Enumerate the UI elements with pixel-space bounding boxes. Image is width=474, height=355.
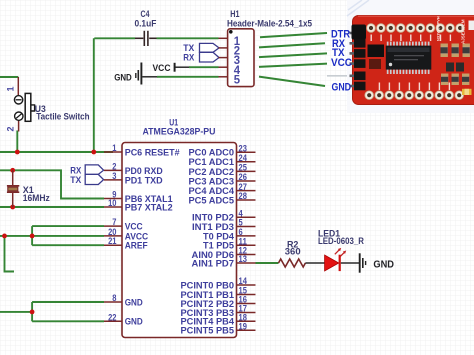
FTDI gold LED [462, 89, 472, 95]
wire: U1 pin 13 to R2 [256, 262, 279, 264]
FTDI silkscreen marks [371, 35, 452, 91]
U1 pin 24 number [239, 153, 247, 163]
svg-text:26: 26 [239, 172, 247, 182]
svg-text:22: 22 [108, 312, 116, 322]
U1 pin 23 (PC0 ADC0) stub [237, 151, 256, 153]
wire: H1 pin 5 to GND symbol [142, 76, 218, 78]
wire: switch pin 1 from left edge [0, 76, 18, 78]
U1 pin 21 number [108, 236, 116, 246]
tactile switch U3 label [35, 104, 90, 122]
U1 pin 1 (PC6 RESET#) stub [104, 151, 122, 153]
svg-text:0.1uF: 0.1uF [134, 18, 156, 29]
U1 pin 15 label [181, 290, 235, 301]
wire: GND feed from left edge [0, 311, 32, 313]
crystal X1 plates [7, 186, 19, 192]
U1 pin 14 label [181, 280, 235, 291]
U1 pin 10 (PB7 XTAL2) stub [104, 206, 122, 208]
wire: H1 to FTDI RX [259, 43, 325, 47]
wire: unconnected CTS (grey) [327, 75, 348, 77]
U1 pin 4 label [192, 213, 234, 224]
svg-text:24: 24 [239, 153, 247, 163]
U1 pin 11 number [239, 236, 247, 246]
U1 pin 11 (T1 PD5) stub [237, 244, 256, 246]
crystal X1 leads [12, 170, 14, 207]
U1 pin 7 (VCC) stub [104, 225, 122, 227]
U1 pin 12 number [239, 246, 247, 256]
tactile switch U3 pin 1 lead [17, 77, 19, 96]
U1 pin 9 number [112, 190, 116, 200]
FTDI jumper block [368, 45, 385, 70]
svg-text:360: 360 [285, 246, 301, 257]
header H1 pin 3 number [234, 55, 240, 67]
net label TX (FTDI) [332, 47, 345, 59]
header H1 pin1 marker dot [229, 30, 233, 34]
svg-text:7: 7 [112, 217, 116, 227]
FTDI board PCB [353, 16, 474, 105]
U1 pin 27 (PC4 ADC4) stub [237, 190, 256, 192]
tactile switch U3 pin number 1 [6, 86, 16, 91]
U1 pin 19 (PCINT5 PB5) stub [237, 329, 256, 331]
U1 pin 13 (AIN1 PD7) stub [237, 262, 256, 264]
svg-text:LED-0603_R: LED-0603_R [318, 236, 364, 247]
header H1 label [227, 9, 312, 28]
U1 pin 3 (PD1 TXD) stub [104, 179, 122, 181]
U1 pin 21 label [125, 241, 148, 252]
wire: H1 to FTDI DTR [260, 33, 327, 37]
LED LED1 cathode bar [339, 255, 341, 271]
U1 pin 27 label [189, 186, 235, 197]
U1 pin 3 label [125, 175, 163, 186]
junction dot 3 [10, 168, 15, 173]
svg-text:1: 1 [6, 86, 16, 91]
U1 pin 14 number [239, 276, 247, 286]
svg-text:GND: GND [125, 297, 143, 308]
wire: XTAL1 net from left edge to U1 pin 9 [0, 170, 104, 198]
header H1 pin 1 number [234, 36, 241, 48]
U1 pin 17 label [181, 308, 235, 319]
svg-text:GND: GND [125, 317, 143, 328]
header H1 pin 2 number [234, 46, 240, 58]
U1 pin 18 number [239, 313, 247, 323]
U1 pin 13 number [239, 254, 247, 264]
svg-text:2: 2 [6, 126, 16, 131]
header H1 box [228, 29, 254, 87]
svg-text:VCC: VCC [331, 57, 352, 69]
U1 pin 28 number [239, 191, 247, 201]
U1 pin 15 (PCINT1 PB1) stub [237, 294, 256, 296]
net label RX (FTDI) [332, 38, 346, 50]
tactile switch U3 pin number 2 [6, 126, 16, 131]
header H1 pin 5 stub [219, 76, 228, 78]
U1 pin 9 label [125, 194, 174, 205]
header H1 pin 4 stub [219, 66, 228, 68]
U1 pin 4 number [239, 208, 243, 218]
svg-text:13: 13 [239, 254, 247, 264]
U1 pin 23 number [239, 143, 247, 153]
resistor R2 [279, 259, 306, 267]
svg-text:PD1 TXD: PD1 TXD [125, 175, 163, 186]
U1 pin 16 label [181, 299, 235, 310]
svg-text:2: 2 [112, 161, 116, 171]
resistor R2 label [285, 239, 301, 257]
ground symbol (H1 pin 5) [114, 63, 141, 85]
net label VCC (FTDI) [331, 57, 352, 69]
svg-text:GND: GND [373, 260, 394, 271]
net flag RX (to U1 PD0) [70, 165, 103, 177]
FTDI left header pins [350, 29, 366, 91]
svg-text:10: 10 [108, 198, 116, 208]
U1 pin 9 (PB6 XTAL1) stub [104, 198, 122, 200]
U1 pin 13 label [192, 258, 235, 269]
FTDI bottom pad row [365, 91, 464, 100]
U1 pin 6 number [239, 227, 243, 237]
header H1 pin 2 stub [219, 47, 228, 49]
U1 pin 16 (PCINT2 PB2) stub [237, 303, 256, 305]
junction dot 5 [2, 234, 7, 239]
net flag TX (to H1 pin 2) [183, 43, 219, 54]
U1 pin 28 label [189, 195, 235, 206]
svg-text:ATMEGA328P-PU: ATMEGA328P-PU [143, 127, 216, 138]
crystal X1 label [23, 185, 50, 204]
svg-text:GND: GND [114, 73, 132, 84]
U1 pin 8 label [125, 297, 143, 308]
net label GND (FTDI) [332, 81, 352, 93]
svg-text:Tactile Switch: Tactile Switch [36, 112, 89, 122]
capacitor C4 label [134, 9, 156, 29]
svg-text:PCINT5 PB5: PCINT5 PB5 [181, 326, 235, 337]
U1 pin 6 label [203, 231, 235, 242]
wire: GND bus to U1 pins 8,22 [32, 302, 104, 321]
U1 pin 5 number [239, 218, 243, 228]
svg-text:21: 21 [108, 236, 116, 246]
U1 pin 8 (GND) stub [104, 301, 122, 303]
U1 pin 15 number [239, 286, 247, 296]
svg-text:8: 8 [112, 293, 116, 303]
net label DTR (FTDI) [331, 28, 350, 40]
svg-text:16MHz: 16MHz [23, 193, 50, 204]
wire: R2 to LED1 [305, 262, 324, 264]
svg-text:PC5 ADC5: PC5 ADC5 [189, 195, 235, 206]
op IC U1 box [122, 143, 237, 338]
U1 pin 23 label [189, 148, 235, 159]
junction dot 4 [10, 205, 15, 210]
junction dot 6 [30, 234, 35, 239]
junction dot 7 [30, 310, 35, 315]
U1 pin 25 number [239, 163, 247, 173]
svg-text:AJSENTEM: AJSENTEM [461, 19, 466, 44]
header H1 pin 1 stub [219, 37, 228, 39]
tactile switch U3 pin 1 circle [14, 96, 22, 104]
svg-text:3: 3 [112, 171, 116, 181]
svg-text:GND: GND [332, 81, 352, 93]
U1 pin 16 number [239, 295, 247, 305]
net flag TX (to U1 PD1) [70, 174, 103, 186]
U1 pin 20 number [108, 227, 116, 237]
svg-text:25: 25 [239, 163, 247, 173]
U1 pin 10 number [108, 198, 116, 208]
header H1 pin 4 number [234, 65, 241, 77]
tactile switch U3 pin 2 circle [15, 112, 23, 120]
wire: C4 net to H1 pin 1 [94, 37, 218, 39]
U1 pin 25 label [189, 167, 235, 178]
wire: switch pin 2 down to RESET net [16, 131, 18, 153]
wire: H1 pin 4 to VCC symbol [176, 66, 219, 68]
U1 pin 1 label [125, 147, 181, 158]
svg-text:AIN1 PD7: AIN1 PD7 [192, 258, 235, 269]
svg-text:N31W3GPVH: N31W3GPVH [436, 16, 441, 41]
wire: H1 to FTDI VCC [259, 64, 327, 67]
U1 pin 19 label [181, 326, 235, 337]
U1 pin 3 number [112, 171, 116, 181]
U1 pin 7 number [112, 217, 116, 227]
junction dot 1 [15, 150, 20, 155]
wire: XTAL2 net from left edge to U1 pin 10 [0, 206, 104, 208]
U1 pin 24 (PC1 ADC1) stub [237, 161, 256, 163]
U1 pin 5 (INT1 PD3) stub [237, 226, 256, 228]
wire: RESET net horizontal to U1 pin 1 [0, 151, 113, 153]
U1 pin 21 (AREF) stub [104, 244, 122, 246]
header H1 pin 3 stub [219, 57, 228, 59]
U1 pin 22 (GND) stub [104, 320, 122, 322]
wire: VCC/AVCC/AREF bus to U1 pins 7,20,21 [32, 226, 104, 245]
wire: stub L below AVCC feed [5, 236, 15, 272]
U1 pin 27 number [239, 182, 247, 192]
U1 pin 17 (PCINT3 PB3) stub [237, 312, 256, 314]
svg-text:23: 23 [239, 143, 247, 153]
tactile switch U3 button bar [25, 93, 31, 121]
capacitor C4 plates [144, 31, 149, 46]
U1 pin 8 number [112, 293, 116, 303]
U1 pin 19 number [239, 321, 247, 331]
U1 pin 5 label [192, 222, 234, 233]
svg-text:PC6 RESET#: PC6 RESET# [125, 147, 181, 158]
svg-text:RX: RX [183, 52, 195, 63]
svg-text:TX: TX [70, 175, 82, 186]
U1 pin 4 (INT0 PD2) stub [237, 216, 256, 218]
LED LED1 label [318, 228, 364, 247]
U1 pin 1 number [112, 143, 116, 153]
U1 pin 26 (PC3 ADC3) stub [237, 180, 256, 182]
U1 pin 2 number [112, 161, 116, 171]
tactile switch U3 contact bracket [31, 105, 35, 111]
LED LED1 arrows [335, 248, 346, 257]
crystal X1 body [8, 187, 18, 191]
U1 pin 25 (PC2 ADC2) stub [237, 170, 256, 172]
junction dot 2 [91, 150, 96, 155]
header H1 pin 5 number [234, 74, 241, 86]
svg-text:PB7 XTAL2: PB7 XTAL2 [125, 202, 173, 213]
svg-text:Header-Male-2.54_1x5: Header-Male-2.54_1x5 [227, 18, 312, 28]
FTDI photo background [347, 0, 474, 113]
U1 pin 18 (PCINT4 PB4) stub [237, 320, 256, 322]
wire: H1 to FTDI GND [259, 77, 325, 86]
capacitor C4 leads [135, 37, 157, 39]
U1 pin 22 number [108, 312, 116, 322]
U1 pin 20 label [125, 231, 149, 242]
U1 pin 20 (AVCC) stub [104, 235, 122, 237]
FTDI top-left connector blob [352, 25, 367, 40]
U1 pin 26 number [239, 172, 247, 182]
wire: AVCC feed from left edge [0, 235, 32, 237]
U1 pin 2 (PD0 RXD) stub [104, 169, 122, 171]
FTDI top pad row [367, 24, 465, 33]
U1 pin 11 label [203, 241, 235, 252]
svg-text:5: 5 [234, 74, 241, 86]
U1 pin 24 label [189, 157, 235, 168]
U1 pin 2 label [125, 166, 163, 177]
IC U1 title [143, 117, 216, 137]
U1 pin 26 label [189, 176, 235, 187]
svg-text:28: 28 [239, 191, 247, 201]
FTDI IC chip [386, 42, 432, 74]
svg-text:1: 1 [112, 143, 116, 153]
U1 pin 22 label [125, 317, 143, 328]
FTDI SMD components [441, 21, 474, 86]
svg-text:AREF: AREF [125, 241, 148, 252]
U1 pin 7 label [125, 222, 143, 233]
wire: LED1 to ground [341, 262, 360, 264]
power symbol VCC [153, 63, 175, 74]
U1 pin 6 (T0 PD4) stub [237, 235, 256, 237]
svg-text:14: 14 [239, 276, 247, 286]
tactile switch U3 pin 2 lead [18, 120, 20, 131]
U1 pin 18 label [181, 317, 235, 328]
U1 pin 17 number [239, 304, 247, 314]
FTDI vertical silk text [436, 16, 466, 44]
net flag RX (to H1 pin 3) [183, 52, 219, 63]
U1 pin 14 (PCINT0 PB0) stub [237, 284, 256, 286]
wire: vertical from C4 net down to RESET net [93, 38, 95, 152]
U1 pin 28 (PC5 ADC5) stub [237, 199, 256, 201]
svg-text:VCC: VCC [153, 63, 171, 74]
wire: H1 to FTDI TX [259, 53, 327, 57]
U1 pin 10 label [125, 202, 173, 213]
LED LED1 triangle [325, 255, 339, 271]
U1 pin 12 (AIN0 PD6) stub [237, 254, 256, 256]
svg-text:19: 19 [239, 321, 247, 331]
ground symbol (LED1) [360, 253, 394, 272]
U1 pin 12 label [192, 250, 235, 261]
